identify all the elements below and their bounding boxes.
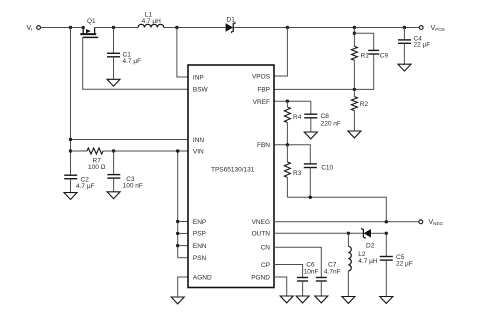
capacitor C6 bbox=[297, 261, 318, 296]
svg-text:4.7 µH: 4.7 µH bbox=[358, 258, 378, 265]
svg-text:INN: INN bbox=[193, 137, 205, 144]
node VPOS output terminal bbox=[419, 25, 445, 32]
node junction PSP bbox=[176, 232, 179, 235]
svg-text:BSW: BSW bbox=[193, 87, 209, 94]
capacitor C3 bbox=[107, 151, 143, 192]
wire D2 anode to C5 node bbox=[371, 232, 386, 234]
svg-text:100 nF: 100 nF bbox=[123, 182, 143, 189]
node VI input terminal bbox=[27, 25, 41, 32]
node junction C1 tap bbox=[112, 26, 115, 29]
svg-text:CN: CN bbox=[261, 245, 271, 252]
wire EN bus bbox=[177, 151, 179, 258]
node junction R7/C3 bbox=[112, 149, 115, 152]
svg-text:22 µF: 22 µF bbox=[414, 41, 431, 48]
svg-text:4.7 µF: 4.7 µF bbox=[123, 58, 142, 65]
resistor R2 bbox=[351, 89, 368, 131]
ground under C7 bbox=[315, 296, 328, 303]
wire D1 to VPOS terminal bbox=[234, 27, 419, 29]
wire PGND stub bbox=[274, 277, 287, 296]
node junction INN tap bbox=[69, 138, 72, 141]
wire R1 top lead bbox=[353, 28, 355, 47]
wire VPOS pin riser bbox=[274, 28, 287, 77]
resistor R1 bbox=[351, 46, 369, 60]
svg-text:C9: C9 bbox=[380, 53, 389, 60]
ground under C8 bbox=[304, 132, 317, 139]
wire FBN bbox=[274, 145, 310, 164]
node junction FBN/R3 bbox=[286, 143, 289, 146]
svg-text:R3: R3 bbox=[293, 170, 302, 177]
inductor L2 bbox=[348, 233, 377, 296]
ground under C4 bbox=[398, 64, 411, 71]
transistor Q1 bbox=[80, 18, 98, 38]
wire ENP stub bbox=[178, 221, 188, 223]
svg-text:AGND: AGND bbox=[193, 274, 212, 281]
wire feedback bottom rail to VNEG bbox=[287, 197, 386, 222]
node junction VIN/EN bus bbox=[176, 149, 179, 152]
ground under R2 bbox=[348, 131, 361, 138]
svg-text:R4: R4 bbox=[293, 114, 302, 121]
capacitor C7 bbox=[316, 261, 341, 296]
wire VNEG bbox=[274, 221, 419, 223]
wire Q1 drain to L1 bbox=[95, 27, 139, 29]
wire INN bbox=[71, 139, 189, 141]
resistor R3 bbox=[284, 145, 301, 198]
svg-text:C6: C6 bbox=[306, 261, 315, 268]
diode D1 bbox=[226, 16, 236, 33]
diode D2 bbox=[362, 228, 375, 250]
node junction INP tap bbox=[175, 26, 178, 29]
wire INP riser bbox=[177, 28, 188, 78]
wire L1 to D1 bbox=[164, 27, 226, 29]
svg-text:D1: D1 bbox=[227, 16, 236, 23]
svg-text:OUTN: OUTN bbox=[252, 231, 271, 238]
node junction VIN/R7 left bbox=[69, 149, 72, 152]
svg-text:220 nF: 220 nF bbox=[321, 120, 341, 127]
wire PSN stub bbox=[178, 257, 188, 259]
wire Q1 gate to BSW bbox=[83, 37, 188, 89]
wire CP to C6 bbox=[274, 265, 303, 278]
wire VREF bbox=[274, 101, 311, 114]
svg-text:ENN: ENN bbox=[193, 243, 207, 250]
node junction C4 tap bbox=[403, 26, 406, 29]
ground under C3 bbox=[107, 192, 120, 199]
capacitor C1 bbox=[107, 28, 141, 80]
svg-text:4.7 µF: 4.7 µF bbox=[76, 183, 95, 190]
node junction C9 branch top bbox=[353, 32, 356, 35]
inductor L1 bbox=[138, 12, 164, 28]
node junction C10 bottom bbox=[309, 196, 312, 199]
wire PSP stub bbox=[178, 232, 188, 234]
svg-text:4.7nF: 4.7nF bbox=[324, 269, 341, 276]
svg-text:VPOS: VPOS bbox=[252, 73, 271, 80]
svg-text:D2: D2 bbox=[366, 243, 375, 250]
ground PGND bbox=[280, 296, 293, 303]
capacitor C4 bbox=[398, 28, 430, 65]
svg-text:10nF: 10nF bbox=[304, 269, 319, 276]
node junction D2/C5 bbox=[385, 232, 388, 235]
svg-text:4.7 µH: 4.7 µH bbox=[142, 18, 162, 25]
svg-text:VREF: VREF bbox=[253, 99, 270, 106]
svg-text:PSP: PSP bbox=[193, 231, 206, 238]
ground under C2 bbox=[64, 193, 77, 200]
node junction R1 top bbox=[353, 26, 356, 29]
svg-text:VNEG: VNEG bbox=[429, 219, 444, 226]
wire R1 bottom lead bbox=[353, 60, 355, 89]
wire VIN bbox=[103, 150, 188, 152]
wire OUTN bbox=[274, 232, 363, 234]
svg-text:PSN: PSN bbox=[193, 255, 207, 262]
node VNEG output terminal bbox=[419, 219, 444, 226]
ground under L2 bbox=[342, 297, 355, 304]
wire FBP bbox=[274, 88, 354, 90]
resistor R4 bbox=[284, 101, 301, 145]
svg-text:PGND: PGND bbox=[251, 274, 270, 281]
svg-text:22 µF: 22 µF bbox=[396, 260, 413, 267]
svg-text:VIN: VIN bbox=[193, 148, 204, 155]
svg-text:VPOS: VPOS bbox=[431, 25, 445, 32]
svg-text:INP: INP bbox=[193, 74, 204, 81]
node junction VPOS riser bbox=[286, 26, 289, 29]
svg-text:CP: CP bbox=[261, 262, 270, 269]
svg-text:100 Ω: 100 Ω bbox=[88, 164, 106, 171]
node junction OUTN/L2 bbox=[347, 232, 350, 235]
node junction input/x70 bbox=[69, 26, 72, 29]
svg-text:ENP: ENP bbox=[193, 219, 206, 226]
ground under C1 bbox=[107, 79, 120, 86]
svg-text:Q1: Q1 bbox=[87, 18, 96, 25]
capacitor C9 bbox=[354, 33, 388, 89]
svg-text:VI: VI bbox=[27, 25, 33, 32]
node junction ENN bbox=[176, 244, 179, 247]
capacitor C8 bbox=[304, 113, 341, 132]
capacitor C2 bbox=[64, 175, 94, 192]
ground AGND bbox=[171, 297, 184, 304]
svg-text:R1: R1 bbox=[361, 53, 370, 60]
ground under C5 bbox=[380, 297, 393, 304]
svg-text:C8: C8 bbox=[321, 113, 330, 120]
node junction VREF/R4 bbox=[286, 100, 289, 103]
svg-text:R2: R2 bbox=[360, 101, 369, 108]
node junction ENP bbox=[176, 220, 179, 223]
wire ENN stub bbox=[178, 245, 188, 247]
svg-text:TPS65130/131: TPS65130/131 bbox=[211, 166, 255, 173]
wire CN to C7 bbox=[274, 247, 321, 277]
ground under C6 bbox=[296, 296, 309, 303]
svg-text:FBN: FBN bbox=[257, 142, 270, 149]
capacitor C10 bbox=[304, 164, 334, 197]
capacitor C5 bbox=[380, 233, 413, 296]
op-amp U1 TPS65130/131 IC body bbox=[188, 65, 274, 288]
svg-text:VNEG: VNEG bbox=[252, 219, 270, 226]
node junction VNEG bbox=[385, 220, 388, 223]
svg-text:FBP: FBP bbox=[257, 87, 270, 94]
wire AGND stub bbox=[178, 277, 188, 297]
node junction FBP/R2 bbox=[353, 88, 356, 91]
wire vertical x70 input down to VIN/C2 bbox=[70, 28, 72, 176]
wire input rail to Q1 source bbox=[41, 27, 83, 29]
svg-text:C7: C7 bbox=[328, 261, 337, 268]
resistor R7 bbox=[71, 148, 106, 171]
svg-text:C10: C10 bbox=[321, 164, 333, 171]
